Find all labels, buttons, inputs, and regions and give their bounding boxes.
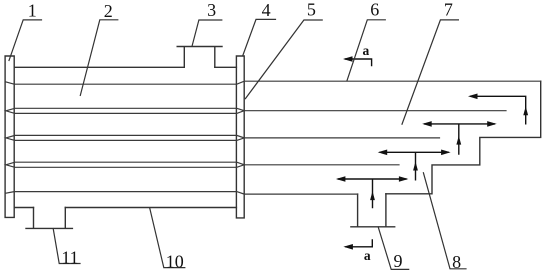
svg-text:4: 4 xyxy=(262,0,271,20)
svg-text:8: 8 xyxy=(452,252,461,272)
svg-text:1: 1 xyxy=(28,1,37,21)
svg-text:a: a xyxy=(364,248,371,263)
svg-text:2: 2 xyxy=(104,1,113,21)
svg-text:7: 7 xyxy=(444,0,453,19)
svg-text:5: 5 xyxy=(307,0,316,20)
svg-text:9: 9 xyxy=(394,251,403,271)
svg-text:11: 11 xyxy=(61,247,78,267)
svg-text:10: 10 xyxy=(166,251,184,271)
svg-text:a: a xyxy=(363,43,370,58)
svg-text:6: 6 xyxy=(370,0,379,20)
svg-text:3: 3 xyxy=(207,0,216,20)
